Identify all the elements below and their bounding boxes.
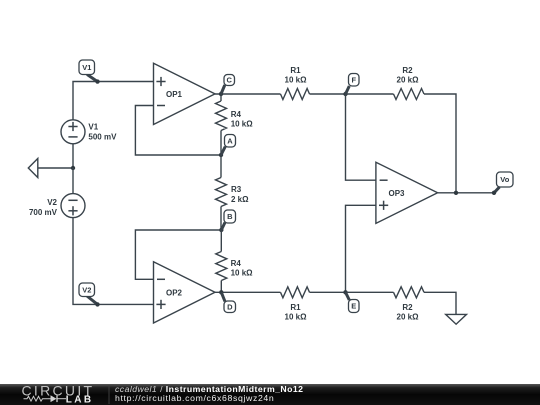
ground (bottom right) bbox=[446, 314, 467, 324]
svg-text:B: B bbox=[227, 212, 233, 221]
svg-text:R1: R1 bbox=[290, 303, 301, 312]
junction node E bbox=[343, 290, 347, 294]
node label D bbox=[221, 292, 225, 301]
svg-text:C: C bbox=[226, 76, 232, 85]
svg-text:700 mV: 700 mV bbox=[29, 208, 58, 217]
node label Vo bbox=[494, 187, 500, 193]
svg-text:LAB: LAB bbox=[66, 394, 94, 405]
op-amp OP2 bbox=[154, 262, 216, 323]
wire E up to OP3 + input bbox=[346, 205, 376, 292]
svg-text:R2: R2 bbox=[402, 66, 413, 75]
node label F bbox=[346, 86, 350, 94]
wire OP2 feedback: node B to - input bbox=[135, 230, 221, 279]
voltage source V2 bbox=[61, 194, 85, 218]
node label V2 bbox=[87, 296, 98, 304]
svg-text:V2: V2 bbox=[82, 285, 91, 294]
op-amp OP1 bbox=[154, 63, 216, 124]
junction node C bbox=[219, 92, 223, 96]
resistor R3 bbox=[220, 155, 222, 178]
svg-text:R2: R2 bbox=[402, 303, 413, 312]
wire R2 bottom to ground bbox=[424, 292, 456, 314]
junction node B bbox=[219, 228, 223, 232]
wire R1 to F bbox=[310, 93, 346, 95]
wire V1 bottom to ground junction bbox=[72, 144, 74, 168]
svg-text:10 kΩ: 10 kΩ bbox=[285, 76, 308, 85]
svg-text:R4: R4 bbox=[231, 259, 242, 268]
wire OP1 output row to R1 bbox=[215, 93, 281, 95]
resistor R2 (top) bbox=[394, 89, 425, 100]
svg-text:E: E bbox=[351, 302, 356, 311]
resistor R4 (bottom) bbox=[220, 230, 222, 252]
logo diode bbox=[51, 395, 57, 402]
node label E bbox=[346, 292, 350, 300]
svg-text:A: A bbox=[227, 136, 233, 145]
resistor R1 (top) bbox=[281, 89, 310, 100]
junction dot ground node bbox=[71, 166, 75, 170]
node label B bbox=[221, 223, 225, 231]
svg-text:500 mV: 500 mV bbox=[88, 132, 117, 141]
wire OP1 feedback: - input to node A bbox=[135, 106, 221, 156]
svg-text:F: F bbox=[352, 76, 357, 85]
node label A bbox=[221, 147, 225, 156]
junction dot output node bbox=[454, 191, 458, 195]
svg-text:20 kΩ: 20 kΩ bbox=[397, 76, 420, 85]
svg-text:10 kΩ: 10 kΩ bbox=[231, 120, 254, 129]
wire R1 bottom to E bbox=[310, 291, 346, 293]
junction node A bbox=[219, 153, 223, 157]
voltage source V1 bbox=[61, 120, 85, 144]
wire junction to V2 source bbox=[72, 168, 74, 194]
svg-text:10 kΩ: 10 kΩ bbox=[231, 269, 254, 278]
svg-text:OP2: OP2 bbox=[166, 288, 183, 297]
op-amp OP3 bbox=[376, 162, 438, 223]
svg-text:R1: R1 bbox=[290, 66, 301, 75]
node label C bbox=[221, 85, 225, 94]
wire F down to OP3 - input bbox=[346, 94, 376, 180]
svg-text:OP1: OP1 bbox=[166, 90, 183, 99]
svg-text:Vo: Vo bbox=[500, 175, 509, 184]
wire V2 bottom to OP2 + input bbox=[73, 218, 154, 305]
svg-text:R3: R3 bbox=[231, 185, 242, 194]
resistor R4 (top) bbox=[220, 94, 222, 101]
wire OP2 output row to R1 bottom bbox=[215, 291, 281, 293]
svg-text:20 kΩ: 20 kΩ bbox=[397, 313, 420, 322]
logo resistor squiggle bbox=[24, 396, 51, 401]
footer divider bbox=[108, 385, 110, 404]
resistor R1 (bottom) bbox=[281, 287, 310, 298]
svg-text:D: D bbox=[227, 302, 233, 311]
junction node F bbox=[343, 92, 347, 96]
wire F to R2 top bbox=[346, 93, 394, 95]
svg-text:V2: V2 bbox=[47, 198, 57, 207]
svg-text:V1: V1 bbox=[82, 63, 91, 72]
resistor R2 (bottom) bbox=[394, 287, 425, 298]
junction node D bbox=[219, 290, 223, 294]
wire E to R2 bottom bbox=[346, 291, 394, 293]
wire R2 top to output node bbox=[424, 94, 456, 193]
svg-text:2 kΩ: 2 kΩ bbox=[231, 195, 249, 204]
svg-text:V1: V1 bbox=[88, 122, 98, 131]
svg-text:OP3: OP3 bbox=[389, 189, 406, 198]
node label V1 bbox=[87, 74, 98, 81]
svg-text:http://circuitlab.com/c6x68sqj: http://circuitlab.com/c6x68sqjwz24n bbox=[115, 393, 274, 403]
svg-text:10 kΩ: 10 kΩ bbox=[285, 313, 308, 322]
wire V1 top: source to OP1 + input bbox=[73, 82, 154, 120]
wire OP3 output to Vo bbox=[438, 192, 494, 194]
svg-text:R4: R4 bbox=[231, 110, 242, 119]
ground (left) bbox=[38, 167, 73, 169]
